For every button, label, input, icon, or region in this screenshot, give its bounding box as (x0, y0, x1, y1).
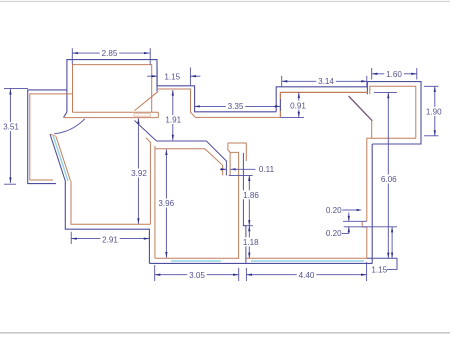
svg-text:3.51: 3.51 (3, 123, 19, 132)
svg-text:0.91: 0.91 (290, 101, 306, 110)
svg-text:0.20: 0.20 (326, 206, 342, 215)
svg-text:3.92: 3.92 (131, 169, 147, 178)
svg-text:1.15: 1.15 (164, 73, 180, 82)
svg-text:2.91: 2.91 (102, 235, 118, 244)
svg-text:1.60: 1.60 (386, 70, 402, 79)
svg-text:3.05: 3.05 (189, 271, 205, 280)
svg-text:3.35: 3.35 (228, 102, 244, 111)
svg-text:1.90: 1.90 (426, 107, 442, 116)
svg-text:1.86: 1.86 (243, 191, 259, 200)
svg-text:6.06: 6.06 (381, 175, 397, 184)
svg-text:3.14: 3.14 (318, 77, 334, 86)
svg-text:1.91: 1.91 (165, 116, 181, 125)
svg-text:4.40: 4.40 (299, 271, 315, 280)
svg-text:1.18: 1.18 (243, 238, 259, 247)
svg-text:3.96: 3.96 (158, 199, 174, 208)
svg-text:0.20: 0.20 (326, 229, 342, 238)
svg-text:2.85: 2.85 (102, 49, 118, 58)
svg-text:0.11: 0.11 (259, 165, 275, 174)
svg-text:1.15: 1.15 (371, 266, 387, 275)
